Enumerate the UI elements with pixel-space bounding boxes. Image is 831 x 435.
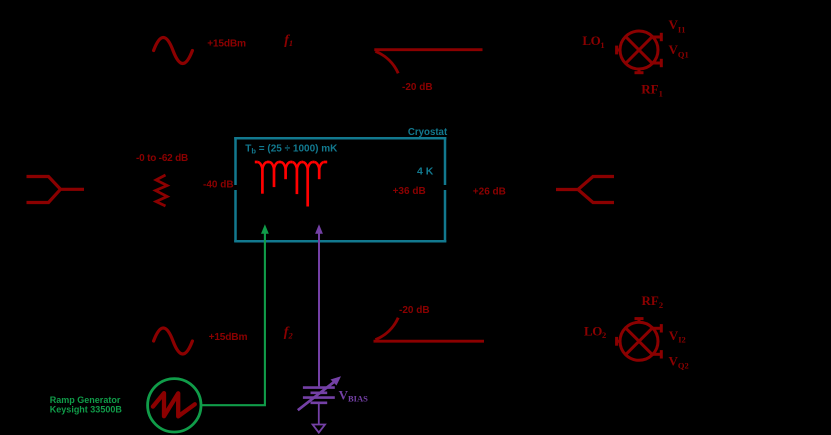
svg-text:-40 dB: -40 dB: [203, 179, 234, 190]
svg-text:Tb = (25 ÷ 1000) mK: Tb = (25 ÷ 1000) mK: [245, 143, 338, 155]
cryostat box: [234, 137, 446, 242]
power splitter (right): [556, 177, 614, 203]
svg-text:+36 dB: +36 dB: [393, 186, 426, 197]
directional coupler DC2 main line: [374, 340, 485, 343]
mixer U1 (IQ mixer, top): [616, 31, 662, 73]
svg-text:+15dBm: +15dBm: [207, 38, 246, 49]
svg-text:-20 dB: -20 dB: [402, 82, 433, 93]
directional coupler DC1 coupled arm: [375, 51, 398, 73]
svg-text:4 K: 4 K: [417, 165, 434, 177]
mixer U2 (IQ mixer, bottom): [616, 318, 662, 360]
svg-text:-20 dB: -20 dB: [399, 305, 430, 316]
wire below battery: [318, 404, 320, 424]
purple arrowhead into cryostat: [315, 224, 323, 234]
svg-text:+15dBm: +15dBm: [209, 332, 248, 343]
signal generator 2 (sine symbol): [154, 328, 193, 354]
directional coupler DC1 main line: [374, 48, 482, 51]
variable attenuator (zigzag): [156, 175, 168, 206]
svg-text:+26 dB: +26 dB: [473, 186, 506, 197]
ramp generator (circle): [148, 379, 201, 432]
green flux line (wire): [202, 234, 265, 406]
svg-text:Cryostat: Cryostat: [408, 127, 448, 138]
ramp generator sawtooth waveform: [153, 393, 195, 416]
power combiner (left): [27, 177, 85, 203]
directional coupler DC2 coupled arm: [375, 318, 398, 340]
signal generator 1 (sine symbol): [154, 38, 193, 64]
ground arrow (open triangle): [313, 425, 325, 433]
svg-text:-0 to -62 dB: -0 to -62 dB: [136, 153, 188, 164]
purple bias line (wire): [318, 234, 320, 387]
svg-text:Keysight 33500B: Keysight 33500B: [50, 405, 123, 415]
resonator comb (transmission dips): [255, 162, 327, 207]
green arrowhead into cryostat: [261, 224, 269, 234]
variable arrow through battery: [298, 380, 337, 410]
battery VBIAS: [303, 388, 335, 403]
